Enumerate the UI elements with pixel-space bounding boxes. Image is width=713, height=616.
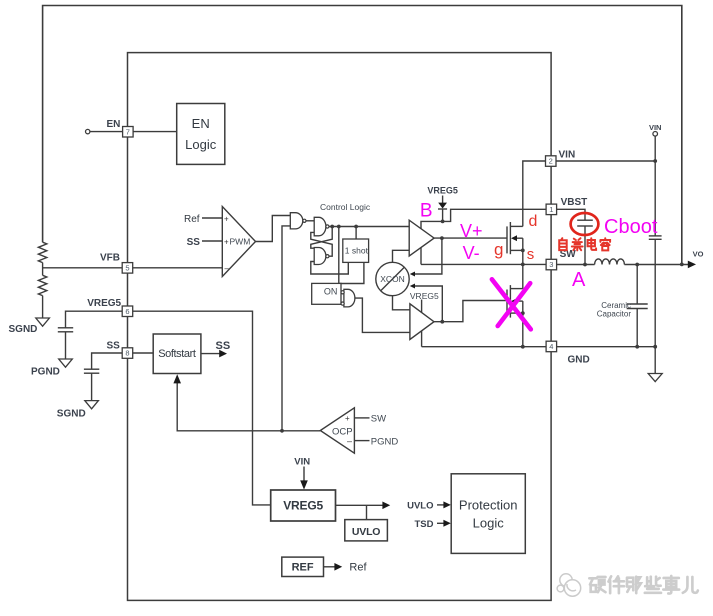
svg-text:VREG5: VREG5 [410,291,439,301]
svg-text:Ref: Ref [184,214,200,225]
wire divider to ground [42,296,44,318]
svg-text:s: s [527,246,535,263]
svg-text:REF: REF [292,562,314,574]
gate NAND G3 (latch bottom) [314,248,326,265]
wire pin 6 VREG5 down to regulator block [132,311,271,505]
wire low-side driver output sense into XCON [415,286,443,322]
svg-text:VIN: VIN [649,123,662,132]
svg-text:PWM: PWM [230,236,251,246]
wire VIN pin 2 to high-side drain [523,161,546,226]
node latch line [330,225,334,229]
svg-text:XCON: XCON [380,274,405,284]
svg-text:SS: SS [216,340,231,352]
svg-text:2: 2 [549,157,553,166]
svg-text:+: + [224,214,229,223]
wire latch line down to ON gate upper input [339,227,341,293]
wire high-side driver to SW rail stub [420,248,422,265]
wire external GND rail [556,346,655,348]
amplifier low-side gate driver [410,304,434,340]
block Protection Logic [451,474,525,554]
wire high-side gate drive [434,237,507,239]
pin 6 VREG5 [122,306,133,317]
node 1shot branch [354,225,358,229]
wire ON gate output to low-side driver [355,298,410,332]
wire feedback loop from VO up over the top and down the left side [43,6,682,265]
wire divider mid [42,263,44,276]
gate NOR G4 (ON gate) [344,289,355,307]
node GND at Q2 [521,345,525,349]
wire ceramic cap to GND rail [636,309,638,347]
wire VIN rail down to input cap [654,136,656,236]
wire ceramic cap top [636,265,638,305]
svg-text:6: 6 [125,307,129,316]
ground PGND [59,359,73,367]
gate NAND G1 [290,213,302,229]
capacitor C2 (soft-start) [84,368,99,370]
svg-text:VIN: VIN [559,150,576,161]
svg-text:UVLO: UVLO [407,501,433,512]
wire cap to PGND [65,332,67,359]
svg-text:A: A [572,269,586,291]
annotation X cross over Q2 (magenta) [492,279,531,329]
svg-text:1 shot: 1 shot [345,246,369,256]
svg-text:Control Logic: Control Logic [320,202,371,212]
wire inductor to VO node [624,264,688,266]
pin 2 VIN [546,156,557,167]
wire latch cross-couple Qbar [311,232,332,256]
wire XCON top to high-side driver input [393,250,410,262]
wire VFB tap to pin 5 [43,267,123,269]
wire Q2 drain to SW [522,264,524,288]
node high-side gate [440,236,444,240]
svg-text:Ref: Ref [349,562,367,574]
block ON [312,283,341,304]
wire VREG5 output arrow [336,504,384,506]
wire PWM output to NAND G1 [256,216,291,242]
svg-text:VREG5: VREG5 [427,186,458,196]
node VIN terminal [653,132,658,137]
wire VREG5 pin6 to bypass cap [66,311,123,328]
ground SGND (divider) [36,318,50,326]
XCON circle U2 [376,262,409,295]
ground main [648,374,662,382]
capacitor C3 (input) [649,235,662,237]
block EN Logic U1 [177,104,225,165]
svg-text:UVLO: UVLO [352,526,380,538]
pin 1 VBST [546,204,557,215]
node SW at Q1/Q2 [521,263,525,267]
inductor L1 [595,259,625,265]
block VREG5 regulator [271,490,336,521]
resistor R2 (lower feedback divider) [38,275,46,295]
wire SS pin8 to soft-start cap [92,353,123,369]
amplifier high-side gate driver [409,220,434,256]
wire Softstart SS output [201,353,220,355]
svg-text:EN: EN [107,119,121,130]
pin 5 VFB [122,263,133,274]
wire VIN into VREG5 block [303,467,305,482]
resistor R1 (upper feedback divider) [38,242,46,262]
capacitor C1 (VREG5 bypass) [58,327,73,329]
node OCP output branch [280,429,284,433]
node GND rail end [653,345,657,349]
svg-text:VBST: VBST [561,197,588,208]
capacitor C4 (ceramic output) [627,303,648,305]
svg-text:Protection: Protection [459,498,518,513]
block 1 shot [343,239,369,262]
wire SS input [202,240,222,242]
comparator OCP [320,408,354,453]
wire latch cross-couple Q [311,227,332,249]
wire Q2 source to GND rail [522,313,524,347]
IC boundary box [128,53,552,601]
svg-text:3: 3 [549,260,553,269]
wire low-side gate drive [434,301,507,322]
capacitor Cboot (bootstrap) [577,219,593,221]
svg-text:SW: SW [371,414,386,425]
wire OCP SW input [354,417,369,419]
annotation red circle around Cboot [571,213,599,235]
block REF [282,557,324,576]
wire SW rail to pin 3 [421,263,546,265]
wire 1 shot top connection [355,227,357,240]
svg-text:+: + [224,237,229,246]
wire low-side driver VREG5 stub [421,300,423,313]
wire REF output arrow [324,566,336,568]
node ON branch [337,225,341,229]
watermark logo [557,574,581,596]
svg-text:VREG5: VREG5 [283,498,323,512]
node GND ceramic [635,345,639,349]
svg-text:Logic: Logic [473,516,505,531]
svg-text:VREG5: VREG5 [87,298,121,309]
node diode to VBST rail [441,220,445,224]
transistor Q1 (high-side NMOS) [506,226,508,253]
node VIN rail junction [653,159,657,163]
watermark text 硬件那些事儿 (drawn strokes) [589,576,698,594]
pin 4 GND [546,341,557,352]
wire Q1 source to SW rail [522,250,524,264]
svg-text:VO: VO [693,250,704,259]
svg-text:SGND: SGND [9,324,38,335]
svg-text:4: 4 [549,342,553,351]
svg-text:Logic: Logic [185,137,217,152]
block Softstart [153,334,201,374]
svg-text:V-: V- [463,243,480,263]
wire VO output arrow [688,261,696,269]
wire latch output to gate driver [329,226,409,228]
wire G1 to latch [306,220,314,222]
wire input cap to GND rail [654,239,656,346]
svg-text:8: 8 [125,349,129,358]
node EN input terminal [86,129,90,133]
op-amp PWM comparator [222,207,255,277]
svg-text:SGND: SGND [57,408,86,419]
node Q2 source [521,311,525,315]
svg-text:d: d [529,213,538,230]
svg-text:VIN: VIN [294,457,310,468]
node low-side gate [440,320,444,324]
svg-text:+: + [345,414,350,423]
wire EN terminal to pin 7 [90,131,123,133]
transistor Q2 (low-side NMOS) [506,290,508,313]
wire pin 8 to Softstart [132,352,153,354]
wire pin 7 to EN Logic [133,131,177,133]
svg-text:TSD: TSD [415,519,434,530]
wire branch to UVLO [366,505,368,519]
wire OCP PGND input [354,440,369,442]
wire latch lower input feedback to 1 shot [311,262,349,275]
svg-text:–: – [225,263,230,273]
svg-text:PGND: PGND [371,436,399,447]
svg-text:ON: ON [324,287,338,297]
ground SGND (soft-start) [85,401,99,409]
annotation 自举电容 (red, drawn strokes) [559,238,610,250]
node VO/feedback [680,263,684,267]
wire pin 1 VBST to bootstrap cap [556,209,585,220]
svg-text:Softstart: Softstart [158,348,196,360]
svg-text:–: – [347,436,352,446]
wire low-side driver ground stub to GND rail [421,331,423,347]
svg-text:7: 7 [126,127,130,136]
pin 7 EN [123,127,134,138]
wire GND rail to pin 4 [422,346,546,348]
wire OCP output to Softstart [177,383,320,431]
gate NAND G2 (latch top) [314,217,326,236]
svg-text:SS: SS [107,341,121,352]
wire bootstrap cap to SW node [584,226,586,265]
wire XCON bottom to low-side driver input [393,296,411,310]
wire GND stub down [654,347,656,374]
svg-text:SS: SS [187,237,201,248]
svg-text:5: 5 [125,264,129,273]
wire cap to SGND [91,373,93,400]
wire pin 5 to PWM comparator inverting input [132,267,222,269]
wire 1 shot bottom to ON gate line [339,262,364,283]
diode D1 (VREG5 to VBST) [442,196,444,204]
pin 3 SW [546,259,557,270]
svg-text:VFB: VFB [100,253,120,264]
svg-text:V+: V+ [460,221,483,241]
node Q1 source [521,249,525,253]
block UVLO [345,520,388,541]
node VO/ceramic cap [635,263,639,267]
wire pin 2 to external VIN rail [556,160,655,162]
svg-text:GND: GND [568,355,590,366]
svg-text:Capacitor: Capacitor [597,309,632,318]
pin 8 SS [122,348,133,359]
svg-text:EN: EN [192,116,210,131]
wire high-side driver supply rail to VBST pin 1 [421,209,546,229]
svg-text:Cboot: Cboot [604,216,658,238]
wire high-side driver output sense into XCON [415,238,442,274]
svg-text:B: B [420,201,433,222]
node Cboot to SW [583,263,587,267]
svg-text:g: g [494,240,503,259]
svg-text:1: 1 [549,205,553,214]
wire SW pin 3 to inductor [556,264,595,266]
svg-text:PGND: PGND [31,366,60,377]
wire Ref input [202,217,222,219]
wire OCP output up to NAND G1 lower input [282,226,290,431]
